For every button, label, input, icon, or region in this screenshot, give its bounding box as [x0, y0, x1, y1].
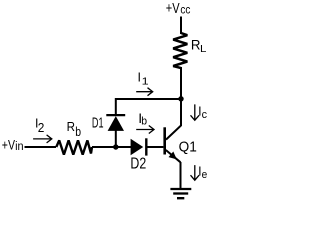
diode D2 cathode bar [145, 138, 147, 155]
transistor Q1 emitter arrowhead [169, 152, 177, 160]
svg-text:D2: D2 [130, 156, 146, 173]
svg-text:1: 1 [142, 75, 149, 87]
svg-text:1: 1 [189, 138, 197, 155]
transistor Q1 base bar [163, 127, 166, 154]
diode D1 triangle [108, 116, 124, 131]
svg-text:Q: Q [179, 138, 190, 155]
label +Vcc [166, 0, 191, 17]
wire: emitter to ground [180, 162, 182, 189]
label Ib [138, 110, 147, 128]
wire: +Vin to Rb [25, 146, 57, 148]
svg-text:I: I [138, 70, 141, 84]
arrow I1 [136, 88, 153, 96]
resistor RL [173, 33, 187, 68]
label Ie [198, 164, 207, 181]
svg-text:+V: +V [166, 0, 180, 17]
diode D1 cathode bar [106, 114, 125, 116]
svg-text:e: e [202, 169, 208, 181]
svg-text:b: b [141, 116, 147, 128]
arrow Ib [136, 126, 154, 134]
diode D2 triangle [131, 139, 144, 155]
ground [170, 189, 191, 198]
node A junction dot [178, 96, 183, 101]
wire: Rb to D2 anode (through node B) [92, 146, 131, 148]
wire: node B to D1 anode [115, 131, 117, 148]
wire: collector to node A [166, 99, 181, 140]
svg-text:+V: +V [2, 137, 16, 153]
label I2 [35, 117, 44, 135]
label RL [191, 37, 207, 55]
arrow Ic [191, 104, 200, 120]
svg-text:c: c [202, 109, 208, 121]
arrow I2 [33, 135, 52, 143]
wire: +Vcc to RL top [180, 17, 182, 35]
svg-text:2: 2 [38, 120, 45, 135]
wire: RL bottom to node A [180, 67, 182, 100]
transistor Q1 emitter diagonal [166, 150, 181, 162]
label Ic [198, 104, 207, 121]
wire: D2 cathode to Q1 base [147, 146, 163, 148]
label +Vin [2, 137, 24, 154]
svg-text:L: L [200, 44, 207, 55]
svg-text:in: in [15, 141, 24, 153]
svg-text:R: R [67, 119, 75, 134]
svg-text:cc: cc [180, 5, 190, 17]
arrow Ie [191, 165, 200, 180]
label Rb [67, 119, 81, 139]
node B junction dot [113, 144, 118, 149]
label I1 [138, 70, 149, 87]
svg-text:D1: D1 [92, 115, 104, 132]
svg-text:b: b [75, 125, 81, 139]
wire: D1 cathode riser and top wire to node A [116, 99, 181, 115]
resistor Rb [56, 140, 92, 154]
